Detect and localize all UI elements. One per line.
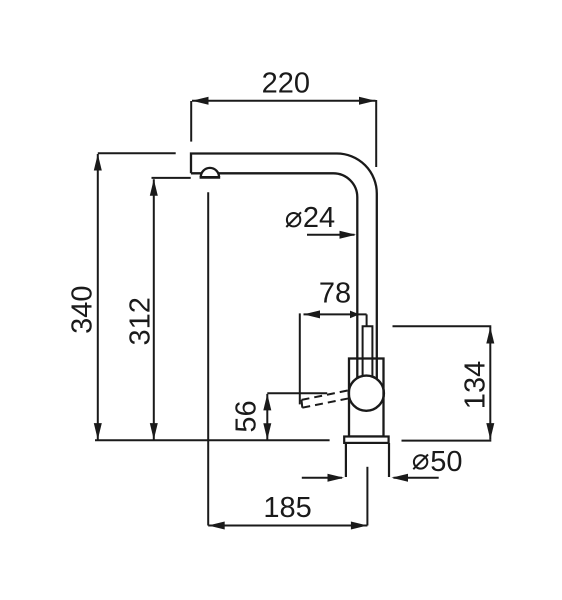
- ball joint circle: [349, 376, 384, 411]
- dimension 56: [263, 393, 327, 440]
- cartridge stem: [363, 326, 373, 380]
- svg-text:24: 24: [303, 202, 335, 234]
- dimension diameter 50 arrows: [302, 474, 439, 482]
- wire: base pipe right edge: [388, 443, 390, 477]
- lever handle (dashed, shown in open position): [302, 390, 350, 408]
- svg-text:220: 220: [262, 68, 310, 100]
- ball joint circle white mask: [350, 377, 383, 410]
- wire: counter baseline left segment: [95, 439, 330, 441]
- dimension 312: [150, 178, 191, 440]
- dimension 220 top: [191, 97, 376, 167]
- svg-text:50: 50: [430, 446, 462, 478]
- svg-text:340: 340: [66, 286, 98, 334]
- dimension 78: [300, 310, 367, 404]
- svg-text:78: 78: [319, 277, 351, 309]
- label diameter 24: [286, 212, 301, 227]
- dimension 340 left: [94, 153, 176, 439]
- faucet spout inner contour: [191, 173, 357, 380]
- dimension 185 bottom: [208, 192, 367, 529]
- lever handle end cap: [301, 400, 304, 408]
- dimension diameter 24 leader: [307, 231, 356, 239]
- wire: base pipe left edge: [345, 443, 347, 477]
- svg-text:185: 185: [263, 492, 311, 524]
- svg-text:134: 134: [460, 361, 492, 409]
- label diameter 50: [413, 455, 428, 470]
- aerator outlet dome: [200, 168, 221, 178]
- base flange: [344, 437, 388, 443]
- wire: counter baseline right segment / 134 bottom extension: [402, 440, 492, 442]
- svg-text:56: 56: [231, 400, 263, 432]
- dimension 134 right: [393, 326, 495, 439]
- faucet body: [349, 359, 384, 437]
- svg-text:312: 312: [125, 297, 157, 345]
- faucet spout outer contour: [191, 154, 377, 382]
